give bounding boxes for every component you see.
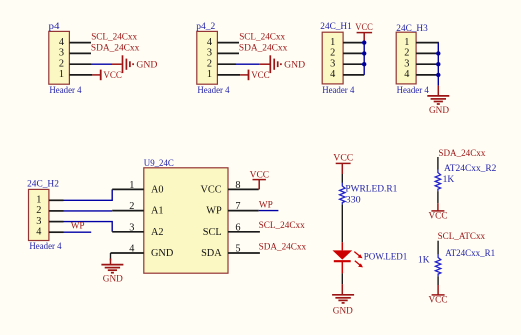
connector P4_2 — [196, 22, 230, 96]
svg-text:3: 3 — [330, 59, 335, 70]
svg-text:24C_H3: 24C_H3 — [396, 24, 428, 34]
wire H2 pin2 to A1 — [64, 210, 113, 212]
wire R2 to VCC — [437, 191, 439, 203]
resistor PWRLED.R1 330 — [340, 183, 398, 206]
svg-text:1: 1 — [36, 195, 41, 206]
svg-text:1: 1 — [59, 69, 64, 80]
svg-text:2: 2 — [59, 59, 64, 70]
svg-text:VCC: VCC — [355, 23, 373, 33]
wire to resistor R2 — [437, 157, 439, 170]
svg-text:3: 3 — [207, 48, 212, 59]
svg-text:1K: 1K — [418, 255, 430, 265]
wire H3 pin4 — [416, 74, 438, 76]
ground GND earth — [101, 259, 123, 285]
power VCC (LED chain) — [333, 154, 353, 175]
svg-text:6: 6 — [235, 222, 240, 233]
svg-text:U9_24C: U9_24C — [144, 159, 174, 169]
svg-text:24C_H1: 24C_H1 — [320, 22, 352, 32]
svg-text:VCC: VCC — [429, 296, 448, 306]
svg-text:3: 3 — [36, 216, 41, 227]
ground GND earth — [427, 86, 449, 116]
svg-text:SCL_24Cxx: SCL_24Cxx — [91, 33, 137, 43]
svg-text:1K: 1K — [443, 175, 455, 185]
svg-text:A2: A2 — [151, 227, 164, 238]
power VCC bar — [249, 70, 270, 81]
junction — [362, 51, 366, 55]
wire to resistor R1 — [437, 241, 439, 255]
svg-text:SDA_24Cxx: SDA_24Cxx — [239, 44, 288, 54]
connector 24C_H1 — [320, 22, 354, 96]
ground GND earth — [332, 284, 354, 316]
svg-text:Header 4: Header 4 — [197, 86, 229, 96]
wire P4 pin4 — [69, 42, 91, 44]
pin 2 — [112, 201, 144, 212]
svg-text:SDA_24Cxx: SDA_24Cxx — [91, 44, 140, 54]
wire H3 pin2 — [416, 52, 438, 54]
wire H2 pin4 stub — [49, 231, 64, 233]
power VCC bar (down) — [429, 285, 448, 306]
svg-text:Header 4: Header 4 — [49, 86, 81, 96]
svg-text:VCC: VCC — [103, 71, 122, 81]
wire H3 pin3 — [416, 63, 438, 65]
svg-text:4: 4 — [36, 227, 41, 238]
ground GND (bar style) — [123, 55, 158, 73]
svg-text:SCL: SCL — [203, 227, 222, 238]
svg-text:GND: GND — [284, 61, 305, 71]
svg-text:GND: GND — [333, 306, 353, 316]
svg-text:GND: GND — [151, 248, 174, 259]
svg-text:p4_2: p4_2 — [196, 22, 215, 32]
wire H3 pin1 — [416, 42, 439, 44]
svg-text:Header 4: Header 4 — [29, 242, 61, 252]
junction — [362, 40, 366, 44]
svg-text:1: 1 — [207, 69, 212, 80]
power VCC bar (down) — [429, 203, 448, 221]
svg-text:2: 2 — [36, 205, 41, 216]
svg-text:3: 3 — [129, 222, 134, 233]
svg-text:Header 4: Header 4 — [322, 86, 354, 96]
LED POW.LED1 — [333, 242, 408, 273]
svg-text:Header 4: Header 4 — [397, 86, 429, 96]
svg-text:VCC: VCC — [201, 184, 222, 195]
svg-text:1: 1 — [129, 180, 134, 191]
wire R1 to VCC — [437, 276, 439, 285]
svg-text:24C_H2: 24C_H2 — [27, 180, 59, 190]
wire H3 bus — [437, 43, 439, 86]
svg-text:2: 2 — [207, 59, 212, 70]
power VCC — [355, 23, 373, 41]
svg-text:WP: WP — [259, 200, 273, 210]
svg-text:A0: A0 — [151, 184, 164, 195]
wire resistor to LED — [341, 205, 343, 243]
wire H2 pin3 stub — [49, 221, 64, 223]
pin 3 — [112, 222, 144, 233]
connector 24C_H2 — [27, 180, 62, 253]
svg-text:VCC: VCC — [333, 154, 353, 164]
junction — [436, 73, 440, 77]
wire H1 pin3 — [343, 63, 365, 65]
svg-text:1: 1 — [404, 37, 409, 48]
wire P4_2 pin3 — [217, 52, 239, 54]
svg-text:SDA_24Cxx: SDA_24Cxx — [259, 242, 307, 252]
wire P4_2 pin1 — [217, 74, 248, 76]
svg-text:4: 4 — [330, 69, 335, 80]
svg-text:5: 5 — [235, 244, 240, 255]
svg-text:2: 2 — [129, 201, 134, 212]
wire H2 pin1 stub — [49, 199, 64, 201]
wire P4_2 pin4 — [217, 42, 239, 44]
wire H2 pin2 stub — [49, 210, 64, 212]
svg-text:SCL_24Cxx: SCL_24Cxx — [239, 33, 285, 43]
wire H2 pin4 net WP — [64, 231, 92, 233]
svg-text:4: 4 — [129, 244, 134, 255]
pin 7 — [228, 201, 259, 212]
svg-text:7: 7 — [235, 201, 240, 212]
svg-text:A1: A1 — [151, 206, 164, 217]
power VCC — [250, 171, 270, 190]
svg-text:4: 4 — [207, 37, 212, 48]
wire H1 pin1 — [343, 42, 365, 44]
pin 8 — [228, 180, 259, 191]
svg-text:2: 2 — [404, 48, 409, 59]
resistor AT24Cxx_R1 1K — [418, 249, 495, 276]
svg-text:SCL_ATCxx: SCL_ATCxx — [438, 232, 486, 242]
svg-text:2: 2 — [330, 48, 335, 59]
connector P4 — [49, 22, 82, 96]
svg-text:8: 8 — [235, 180, 240, 191]
wire H2 pin3 to A2 — [64, 222, 113, 232]
pin 1 — [112, 180, 144, 191]
svg-text:WP: WP — [71, 221, 85, 231]
power VCC bar — [101, 70, 122, 81]
ground GND (bar style) — [270, 55, 305, 73]
svg-text:SDA_24Cxx: SDA_24Cxx — [438, 149, 485, 159]
wire H1 bus — [363, 42, 365, 75]
pin 5 — [228, 244, 260, 255]
svg-text:PWRLED.R1: PWRLED.R1 — [345, 184, 397, 194]
svg-text:330: 330 — [346, 195, 361, 205]
svg-text:SDA: SDA — [201, 248, 222, 259]
svg-text:WP: WP — [206, 206, 222, 217]
svg-text:GND: GND — [429, 106, 449, 116]
wire P4_2 pin2 — [217, 63, 269, 65]
svg-text:POW.LED1: POW.LED1 — [364, 253, 408, 263]
wire P4 pin3 — [69, 52, 91, 54]
svg-text:3: 3 — [59, 48, 64, 59]
svg-text:1: 1 — [330, 37, 335, 48]
junction — [436, 51, 440, 55]
junction — [362, 62, 366, 66]
connector 24C_H3 — [396, 24, 429, 96]
svg-text:VCC: VCC — [250, 171, 270, 181]
svg-text:AT24Cxx_R2: AT24Cxx_R2 — [444, 164, 497, 174]
IC U9_24C — [144, 159, 228, 273]
pin 4 — [111, 244, 144, 255]
pin 6 — [228, 222, 260, 233]
svg-text:GND: GND — [136, 61, 157, 71]
svg-text:p4: p4 — [49, 22, 60, 32]
svg-text:GND: GND — [103, 275, 123, 285]
wire H1 pin2 — [343, 52, 365, 54]
wire H1 pin4 — [343, 74, 364, 76]
svg-text:VCC: VCC — [429, 212, 448, 222]
junction — [436, 62, 440, 66]
svg-text:3: 3 — [404, 59, 409, 70]
resistor AT24Cxx_R2 1K — [435, 164, 497, 191]
svg-text:VCC: VCC — [251, 71, 270, 81]
svg-text:4: 4 — [404, 69, 409, 80]
wire LED to ground — [341, 273, 343, 284]
wire to resistor — [341, 174, 343, 183]
svg-text:SCL_24Cxx: SCL_24Cxx — [259, 221, 305, 231]
svg-text:4: 4 — [59, 37, 64, 48]
wire pin4 to ground — [110, 253, 112, 261]
wire P4 pin1 — [69, 74, 100, 76]
wire H2 pin1 to A0 — [64, 189, 113, 200]
wire net WP — [259, 210, 279, 212]
svg-text:AT24Cxx_R1: AT24Cxx_R1 — [445, 249, 495, 259]
wire P4 pin2 — [69, 63, 121, 65]
